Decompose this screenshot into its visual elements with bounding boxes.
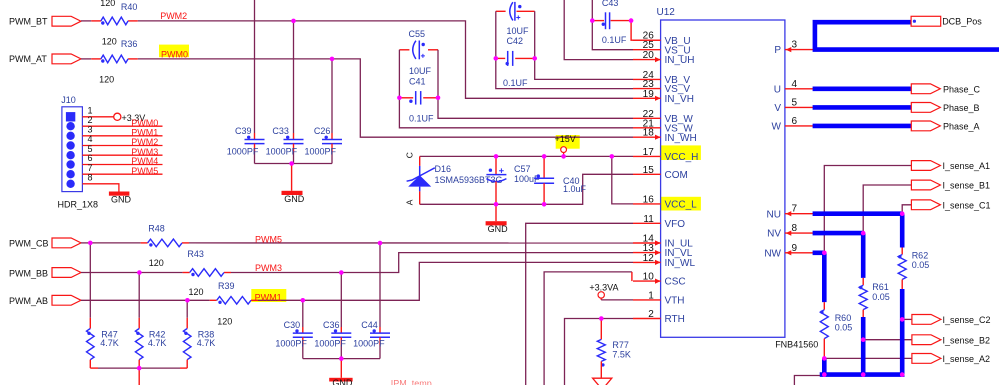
wire pulldown ground rail [90,367,98,369]
wire +15V rail [420,155,633,157]
port I_sense_A2 [912,354,941,364]
svg-text:I_sense_C1: I_sense_C1 [943,200,991,210]
net highlight +15V [556,135,580,149]
junction [822,356,827,361]
U12 pin 19 IN_VH [633,97,661,99]
svg-text:1000PF: 1000PF [314,339,346,349]
bus bottom rail [820,372,905,377]
wire C55/C41 left rail to VS_W [399,50,633,128]
svg-text:Phase_C: Phase_C [943,84,981,94]
svg-text:PWM1: PWM1 [131,127,158,137]
analog ground triangle [593,378,612,385]
svg-text:120: 120 [102,37,117,47]
svg-text:V: V [774,103,781,114]
junction [900,372,905,377]
U12 pin 5 V [785,106,814,108]
svg-text:17: 17 [643,147,655,158]
svg-text:PWM4: PWM4 [131,156,158,166]
svg-text:GND: GND [284,194,305,204]
svg-text:NV: NV [767,229,781,240]
svg-text:2: 2 [88,115,93,125]
svg-text:0.1UF: 0.1UF [503,78,528,88]
port I_sense_C2 [912,315,941,325]
bus NW column with shunt R60 [813,251,825,256]
junction [289,161,294,166]
U12 pin 8 NV [785,232,814,234]
svg-text:3: 3 [792,40,798,51]
svg-text:C26: C26 [314,126,331,136]
wire I_sense_A2 [824,357,912,359]
wire VS_U feed from top [592,0,633,50]
junction [900,211,905,216]
svg-text:PWM1: PWM1 [255,293,282,303]
port Phase_C [911,84,940,94]
svg-text:R39: R39 [218,281,235,291]
svg-text:VTH: VTH [665,296,685,307]
U12 pin 22 VB_W [633,117,661,119]
svg-text:D16: D16 [435,164,452,174]
svg-text:15: 15 [643,165,655,176]
svg-text:PWM2: PWM2 [160,11,187,21]
U12 pin 14 IN_UL [633,242,661,244]
resistor R60 [820,310,828,339]
svg-text:1000PF: 1000PF [227,147,259,157]
svg-text:VFO: VFO [665,219,686,230]
svg-text:NW: NW [764,248,781,259]
svg-text:VCC_L: VCC_L [665,200,698,211]
svg-text:C44: C44 [361,320,378,330]
wire C42 left rail to VS_V [496,11,633,88]
svg-text:0.05: 0.05 [835,322,853,332]
U12 pin 10 CSC [633,280,661,282]
svg-text:11: 11 [643,214,654,225]
svg-text:R43: R43 [187,249,204,259]
svg-text:PWM_CB: PWM_CB [9,239,49,249]
wire ground rail to COM [420,174,633,204]
wire I_sense_A1 tap [824,166,911,253]
capacitor C30 [302,300,304,327]
svg-text:GND: GND [332,378,353,385]
junction [900,317,905,322]
wire I_sense_B2 [863,339,912,341]
junction [301,298,306,303]
junction [861,372,866,377]
svg-text:PWM_AB: PWM_AB [9,296,48,306]
svg-text:C41: C41 [409,76,426,86]
wire PWM0 net [81,58,91,60]
svg-text:1000PF: 1000PF [275,339,307,349]
junction [494,154,499,159]
svg-text:C36: C36 [323,320,340,330]
resistor R42 [138,273,140,318]
resistor R43 [190,269,224,277]
svg-text:C57: C57 [514,164,531,174]
svg-text:1000PF: 1000PF [305,147,337,157]
svg-text:12: 12 [643,253,655,264]
bus wire W to Phase_A [813,124,912,129]
svg-text:120: 120 [100,0,115,8]
svg-text:PWM_BT: PWM_BT [9,16,48,26]
svg-text:VCC_H: VCC_H [665,152,699,163]
junction [494,56,499,61]
svg-text:Phase_A: Phase_A [943,121,980,131]
resistor R36 [101,55,128,63]
U12 pin 26 VB_U [633,39,661,41]
wire cap group ground rail [255,163,333,165]
svg-text:1000PF: 1000PF [353,339,385,349]
svg-text:1000PF: 1000PF [266,147,298,157]
junction [822,372,827,377]
svg-text:8: 8 [792,223,798,234]
svg-text:2: 2 [648,309,654,320]
svg-text:IN_VH: IN_VH [665,94,694,105]
junction [88,241,93,246]
svg-text:6: 6 [88,153,93,163]
U12 pin 2 RTH [633,318,661,320]
U12 pin 12 IN_WL [633,261,661,263]
resistor R38 [186,300,188,318]
junction [822,251,827,256]
svg-text:IN_WH: IN_WH [665,133,697,144]
svg-text:I_sense_A2: I_sense_A2 [943,354,991,364]
svg-text:FNB41560: FNB41560 [775,340,818,350]
svg-text:20: 20 [643,50,655,61]
svg-text:PWM5: PWM5 [255,234,282,244]
svg-text:A: A [405,199,415,205]
svg-text:C33: C33 [272,126,289,136]
junction [494,202,499,207]
junction [397,96,402,101]
U12 pin 18 IN_WH [633,136,661,138]
wire to bottom edge [138,368,140,385]
svg-text:C43: C43 [602,0,619,8]
svg-text:I_sense_B2: I_sense_B2 [943,335,991,345]
junction [861,231,866,236]
U12 pin 23 VS_V [633,88,661,90]
junction [610,154,615,159]
resistor R39 [217,297,251,305]
U12 pin 13 IN_VL [633,252,661,254]
power symbol +3.3V [114,113,121,120]
junction [436,96,441,101]
U12 pin 7 NU [785,213,814,215]
svg-text:GND: GND [488,224,509,234]
svg-text:U: U [774,84,781,95]
wire I_sense_C1 tap [902,205,911,214]
U12 pin 4 U [785,88,814,90]
IC U12 FNB41560 [661,20,785,337]
U12 pin 17 VCC_H [633,155,661,157]
capacitor C26 [331,59,333,133]
pin highlight VCC_H [660,145,701,160]
capacitor C44 [379,243,381,327]
port I_sense_B2 [912,335,941,345]
wire IN_UH feed from top [564,0,633,60]
U12 pin 11 VFO [633,222,661,224]
port I_sense_A1 [911,161,940,171]
svg-text:4.7K: 4.7K [100,338,119,348]
svg-text:R61: R61 [872,282,889,292]
svg-text:10: 10 [643,272,655,283]
svg-text:NU: NU [767,209,781,220]
junction [339,356,344,361]
bus wire V to Phase_B [813,105,912,110]
svg-text:PWM_AT: PWM_AT [9,54,47,64]
capacitor C33 [293,21,295,133]
svg-text:IN_WL: IN_WL [665,258,696,269]
U12 pin 6 W [785,125,814,127]
svg-text:J10: J10 [61,95,76,105]
svg-text:+15V: +15V [555,134,576,144]
resistor R40 [101,17,128,25]
wire RTH net [565,319,602,385]
bus wire P to DCB_Pos [815,22,999,49]
resistor R61 [859,285,867,309]
capacitor C40 [543,156,545,178]
capacitor 10UF above C42 [496,10,506,12]
capacitor C39 [254,0,256,133]
port I_sense_B1 [911,180,940,190]
svg-text:PWM2: PWM2 [131,137,158,147]
svg-text:120: 120 [149,258,164,268]
svg-text:10UF: 10UF [507,26,530,36]
junction [861,337,866,342]
junction [339,270,344,275]
resistor R77 [600,319,602,340]
net highlight PWM0 [159,45,189,58]
U12 pin 15 COM [633,173,661,175]
svg-text:4: 4 [792,79,798,90]
svg-text:Phase_B: Phase_B [943,103,980,113]
svg-text:I_sense_B1: I_sense_B1 [943,181,991,191]
svg-text:5: 5 [792,97,798,108]
U12 pin 24 VB_V [633,78,661,80]
svg-text:C: C [404,152,414,158]
U12 pin 20 IN_UH [633,59,661,61]
svg-text:16: 16 [643,194,655,205]
port DCB_Pos [911,16,941,26]
U12 pin 25 VS_U [633,49,661,51]
svg-text:U12: U12 [657,7,676,18]
wire VFO net [526,223,633,385]
svg-text:10UF: 10UF [409,66,432,76]
junction [590,18,595,23]
svg-text:3: 3 [88,124,93,134]
svg-text:DCB_Pos: DCB_Pos [942,16,982,26]
svg-text:C39: C39 [235,126,252,136]
svg-text:0.05: 0.05 [872,292,890,302]
svg-text:4.7K: 4.7K [148,338,167,348]
svg-text:1SMA5936BT3G: 1SMA5936BT3G [435,175,503,185]
junction [629,18,634,23]
pin highlight VCC_L [661,197,701,211]
port Phase_B [911,103,940,113]
svg-text:+3.3VA: +3.3VA [589,282,618,292]
svg-text:W: W [772,122,782,133]
bus NV column with shunt R61 [813,231,864,236]
wire cap group2 ground rail [303,358,380,360]
svg-text:120: 120 [217,317,232,327]
svg-text:0.1UF: 0.1UF [409,113,434,123]
svg-text:I_sense_A1: I_sense_A1 [943,161,991,171]
wire C55/C41 right rail to VB_W [438,50,633,119]
svg-text:PWM_BB: PWM_BB [9,268,48,278]
wire PWM3 net to IN_VL [81,272,139,274]
svg-text:1: 1 [648,290,654,301]
wire C43 right to VB_U pin 26 [631,21,661,41]
svg-text:C30: C30 [284,320,301,330]
svg-text:4.7K: 4.7K [197,338,216,348]
svg-text:19: 19 [643,89,655,100]
svg-text:P: P [774,45,781,56]
junction [185,298,190,303]
U12 pin 9 NW [785,252,814,254]
svg-text:PWM0: PWM0 [161,49,188,59]
junction [532,56,537,61]
junction [599,316,604,321]
port Phase_A [911,121,940,131]
svg-text:R60: R60 [835,313,852,323]
wire PWM1 net to IN_WL [81,299,187,301]
wire VTH net [600,298,602,300]
bus wire U to Phase_C [813,87,912,92]
junction [291,19,296,24]
svg-text:R48: R48 [148,224,165,234]
net highlight PWM1 [251,289,286,302]
resistor R47 [89,243,91,318]
wire I_sense_B1 tap [863,185,911,233]
svg-text:4: 4 [88,134,93,144]
svg-text:R40: R40 [121,2,138,12]
svg-text:8: 8 [88,172,93,182]
port I_sense_C1 [911,200,940,210]
wire from bus to bottom edge [794,376,820,385]
ground GND below C36 [340,359,342,378]
svg-text:1.0uF: 1.0uF [563,184,587,194]
svg-text:IPM_temp: IPM_temp [391,379,432,385]
U12 pin 16 VCC_L [633,203,661,205]
junction [330,57,335,62]
junction [378,241,383,246]
wire PWM5 net to IN_UL [81,242,90,244]
svg-text:6: 6 [792,116,798,127]
U12 pin 21 VS_W [633,127,661,129]
junction [137,366,142,371]
U12 pin 3 P [785,49,814,51]
svg-text:COM: COM [665,170,688,181]
svg-text:120: 120 [99,75,114,85]
svg-text:C42: C42 [507,36,524,46]
wire C42 right rail to VB_V [535,11,633,79]
svg-text:120: 120 [189,287,204,297]
svg-text:HDR_1X8: HDR_1X8 [58,199,99,209]
svg-text:7.5K: 7.5K [612,349,631,359]
svg-text:CSC: CSC [665,277,686,288]
svg-text:7: 7 [792,204,798,215]
wire CSC net [544,272,632,385]
wire PWM2 net [81,20,91,22]
junction [542,154,547,159]
junction [561,154,566,159]
ground GND below C33 [291,164,293,191]
svg-text:7: 7 [88,163,93,173]
capacitor C36 [340,273,342,328]
wire I_sense_C2 [902,318,912,320]
svg-text:0.1UF: 0.1UF [602,35,627,45]
svg-text:IN_UH: IN_UH [665,55,695,66]
svg-text:R36: R36 [121,39,138,49]
U12 pin 1 VTH [633,299,661,301]
svg-text:C55: C55 [409,29,426,39]
bus NU column with shunt R62 [813,211,903,216]
zener diode D16 [419,156,421,166]
svg-text:I_sense_C2: I_sense_C2 [943,315,991,325]
junction [542,202,547,207]
resistor R62 [898,255,906,280]
ground GND at J10 pin 8 [109,192,129,196]
svg-text:0.05: 0.05 [912,260,930,270]
svg-text:PWM3: PWM3 [255,263,282,273]
junction [137,270,142,275]
ground GND below C57 [495,204,497,221]
wire VCC_H to VCC_L tee [612,156,633,204]
capacitor C57 [495,156,497,174]
svg-text:PWM0: PWM0 [131,118,158,128]
svg-text:9: 9 [792,243,798,254]
svg-text:RTH: RTH [665,314,685,325]
svg-text:18: 18 [643,128,655,139]
resistor R48 [148,239,182,247]
svg-text:GND: GND [111,194,132,204]
svg-text:PWM5: PWM5 [131,166,158,176]
